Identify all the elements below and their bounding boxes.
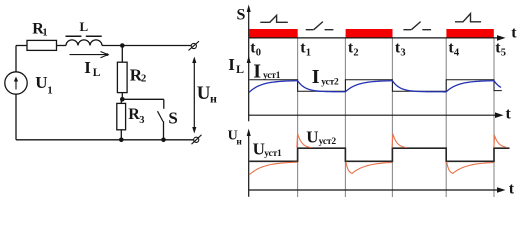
label Iust2 <box>312 66 339 88</box>
gridline t2 <box>344 37 346 197</box>
S pulse bar 3 <box>446 29 493 38</box>
svg-text:уст1: уст1 <box>264 149 282 159</box>
voltage arrow UH <box>192 57 196 134</box>
wire R1 to L <box>57 45 67 47</box>
svg-text:3: 3 <box>400 47 405 58</box>
svg-text:уст2: уст2 <box>319 137 337 147</box>
label R1 <box>32 20 47 38</box>
wire node A to R2 <box>121 46 123 63</box>
gridline t1 <box>297 37 299 197</box>
label t2 <box>348 40 359 59</box>
label IL axis <box>228 55 244 76</box>
svg-text:U: U <box>35 73 47 92</box>
svg-text:уст2: уст2 <box>321 77 339 87</box>
wire bottom <box>16 139 194 141</box>
svg-text:S: S <box>168 108 177 127</box>
switch open icon 1 <box>306 22 334 30</box>
gridline t5 <box>493 37 495 197</box>
label R2 <box>130 65 146 84</box>
label t4 <box>448 40 460 59</box>
terminal upper output <box>189 41 200 50</box>
wire L to node A <box>102 45 191 47</box>
node A junction dot <box>120 43 125 48</box>
svg-text:S: S <box>237 7 246 24</box>
label Iust1 <box>253 61 281 83</box>
label t5 <box>495 40 506 59</box>
node D junction dot <box>161 138 166 143</box>
svg-text:уст1: уст1 <box>263 71 281 81</box>
svg-text:н: н <box>236 138 242 148</box>
IL current waveform <box>249 81 501 93</box>
svg-text:н: н <box>210 92 217 106</box>
switch closed icon 1 <box>260 15 288 22</box>
svg-text:4: 4 <box>454 47 460 58</box>
terminal lower output <box>192 135 202 144</box>
label UH axis <box>228 129 243 148</box>
resistor R3 <box>117 103 126 129</box>
source U1 <box>5 72 27 94</box>
wire source top <box>15 46 17 72</box>
S pulse bar 2 <box>346 29 393 38</box>
wire node B to R3 <box>120 99 122 103</box>
node B junction dot <box>120 97 125 102</box>
switch closed icon 2 <box>455 14 481 22</box>
UH axis vertical <box>247 129 251 197</box>
gridline t3 <box>391 37 393 197</box>
svg-text:3: 3 <box>139 115 144 126</box>
wire source bottom <box>15 94 17 140</box>
svg-text:U: U <box>253 140 265 159</box>
switch S <box>158 99 164 140</box>
label U1 <box>35 73 53 96</box>
svg-text:L: L <box>93 67 101 79</box>
S axis vertical <box>247 5 251 38</box>
wire R2 to node B <box>121 93 123 100</box>
svg-text:2: 2 <box>353 47 358 58</box>
IL steady-state reference square wave <box>249 80 501 91</box>
resistor R1 <box>27 40 57 50</box>
UH time axis <box>249 187 506 193</box>
S time axis <box>249 35 506 41</box>
node C junction dot <box>119 138 124 143</box>
svg-text:L: L <box>80 19 89 34</box>
svg-text:2: 2 <box>141 74 146 85</box>
wire top left horizontal <box>16 45 27 47</box>
label t1 <box>300 40 311 59</box>
UH transient waveform <box>250 134 507 174</box>
wire R3 to bottom <box>120 130 122 140</box>
label R3 <box>128 106 144 126</box>
svg-text:U: U <box>306 127 318 146</box>
svg-text:L: L <box>236 62 244 76</box>
label t3 <box>395 40 406 59</box>
svg-text:0: 0 <box>256 47 261 58</box>
svg-text:1: 1 <box>42 28 47 39</box>
IL axis vertical <box>247 38 251 121</box>
svg-text:U: U <box>197 83 211 104</box>
svg-text:t: t <box>509 180 515 197</box>
svg-text:t: t <box>506 106 512 123</box>
UH output voltage square wave <box>249 148 509 161</box>
wire node B to switch branch <box>122 98 164 100</box>
svg-text:I: I <box>228 55 235 74</box>
svg-text:I: I <box>312 66 320 88</box>
label t0 <box>250 40 261 59</box>
label Uust1 <box>253 140 282 159</box>
resistor R2 <box>117 62 127 92</box>
svg-text:I: I <box>253 61 261 83</box>
S pulse bar 1 <box>249 29 298 38</box>
label IL <box>84 58 101 79</box>
svg-text:t: t <box>511 25 517 42</box>
gridline t4 <box>445 37 447 197</box>
svg-text:1: 1 <box>47 85 53 97</box>
current arrow IL <box>70 52 109 58</box>
svg-text:1: 1 <box>306 47 311 58</box>
switch open icon 2 <box>403 22 431 30</box>
inductor L <box>66 36 103 45</box>
svg-text:I: I <box>84 58 91 77</box>
svg-text:5: 5 <box>501 47 506 58</box>
IL time axis <box>249 112 504 118</box>
label UH <box>197 83 217 106</box>
label Uust2 <box>306 127 336 147</box>
